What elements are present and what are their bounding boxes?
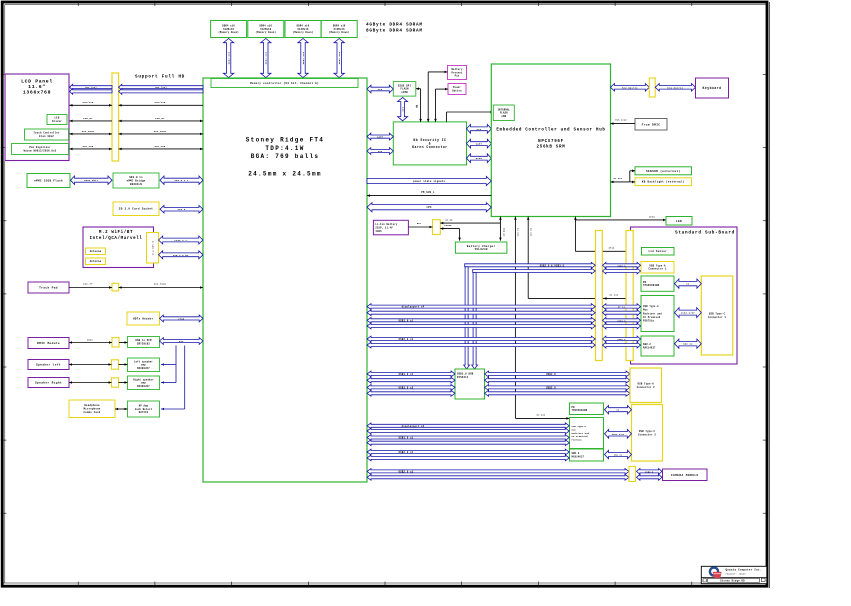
svg-text:Connector 1: Connector 1 [649,268,667,271]
sensor external box [635,167,692,175]
svg-text:MAX14637: MAX14637 [643,346,656,349]
USB3.0 bus to sub-board (lower) [367,323,595,329]
svg-text:BGA: 769 balls: BGA: 769 balls [251,153,320,160]
KB backlight box [635,178,692,186]
HDT header box [127,312,160,325]
LED box [666,217,692,226]
board-to-board connector bar 1 (yellow) [596,231,603,361]
speaker right wire [69,381,128,384]
svg-text:PWM_BL: PWM_BL [155,117,165,120]
USB3/DP arrow redriver2-to-typeC2 [605,429,632,438]
svg-text:From DMIC: From DMIC [642,123,661,126]
svg-text:PROJECT: JEDI8: PROJECT: JEDI8 [726,573,747,576]
svg-text:POWER: POWER [444,224,452,227]
svg-text:USB3.0: USB3.0 [546,373,556,376]
svg-text:PCIe x 1: PCIe x 1 [174,239,187,242]
I2C trackpad wire [69,283,203,289]
key matrix arrow connector-to-keyboard [655,84,695,92]
svg-text:Battery Charger: Battery Charger [467,244,496,248]
security-to-EC-flash wire [447,111,494,122]
svg-text:power state signals: power state signals [413,180,445,183]
antenna 2 box [86,258,106,265]
PM_SUS wire [367,191,491,197]
svg-text:eMMC 8bit: eMMC 8bit [84,179,99,182]
svg-text:CAMERA MODULE: CAMERA MODULE [671,474,699,477]
camera connector (yellow) [629,467,636,482]
displayport x4 bus to sub-board (lower) [367,310,595,316]
SD3.0 bridge-to-SoC arrow [160,176,203,184]
title block bottom strip [703,578,765,582]
USB3.0 bus to sub-board (board link lower) [603,323,641,329]
svg-text:I2C_TP: I2C_TP [83,283,93,286]
svg-text:USB2.0: USB2.0 [546,386,556,389]
svg-text:AC_IN: AC_IN [445,218,453,221]
svg-text:(Memory Down): (Memory Down) [218,31,239,34]
USB3 bus SoC-to-hub row A (lower) [367,377,455,383]
USB riser vertical arrow 2 [472,273,478,370]
svg-text:USB 2.0 BT: USB 2.0 BT [173,254,189,257]
title block company text [726,568,762,575]
USB3/DP arrow redriver1-to-typeC1 [675,308,702,318]
svg-text:SM BUS: SM BUS [502,227,505,236]
CC arrow PD2-to-typeC2 [605,406,632,414]
svg-text:Intel/QCA/Marvell: Intel/QCA/Marvell [90,236,143,241]
I2S speaker bus elbows [161,346,185,411]
DDR4 channel bus arrow 2 [261,39,271,78]
svg-text:Connector 1: Connector 1 [708,316,726,319]
LCD panel label [21,79,53,96]
svg-text:Memory controller (64 bit, Cha: Memory controller (64 bit, Channel A) [250,81,319,85]
svg-text:AUX/SYN: AUX/SYN [83,101,94,104]
EC I2C trunk to sub-board PD [527,217,641,300]
svg-text:Mux: Mux [643,309,648,312]
svg-text:Pin: Pin [455,75,460,78]
svg-text:eMMC Bridge: eMMC Bridge [127,179,146,182]
USB type-C redriver 1 box [641,296,674,332]
EC GPIO wire to sensor and backlight [611,170,636,184]
svg-text:USB3.0 x1: USB3.0 x1 [399,437,414,440]
USB2.0 BT arrow to WiFi [159,251,204,259]
USB type-A connector 2 box (yellow) [630,368,662,403]
svg-text:Combo Jack: Combo Jack [83,411,100,414]
svg-text:Antenna: Antenna [90,260,102,263]
svg-text:SPI: SPI [378,88,383,91]
svg-text:UART: UART [476,143,483,146]
I2C arrow SoC-to-security [367,148,393,155]
battery connector (yellow) [433,220,441,235]
svg-text:TPS65983BD: TPS65983BD [572,409,588,412]
M.2 connector label [152,240,155,255]
svg-text:eDP (X2): eDP (X2) [155,86,167,89]
svg-text:Microphone: Microphone [83,408,100,411]
LCD panel box [5,74,69,161]
svg-text:1366x768: 1366x768 [23,90,51,96]
right speaker amp box [128,376,160,390]
pen digitizer box [12,144,69,155]
svg-text:USB Type-C: USB Type-C [643,305,659,308]
svg-text:11.6": 11.6" [28,84,46,90]
svg-text:I2C PD: I2C PD [517,227,520,236]
svg-text:NPCX796F: NPCX796F [538,140,564,144]
svg-text:USB3.0/DP: USB3.0/DP [612,433,625,436]
svg-text:CC: CC [686,283,690,286]
svg-text:Karen Connector: Karen Connector [412,145,447,149]
svg-text:key matrix: key matrix [668,86,684,89]
svg-text:PWM_BL: PWM_BL [83,117,93,120]
USB2.0 bus to sub-board SBU (board link lower) [603,342,641,348]
USB2.0 arrow connector-to-camera (upper) [637,469,663,475]
USB2.0 bus to sub-board SBU (upper) [367,336,595,342]
GPIO arrow security-to-EC [467,154,492,163]
SBU mux 2 box [570,449,604,461]
svg-text:DDR4 x16: DDR4 x16 [265,51,268,64]
EC block NPCX796F [491,64,610,217]
svg-text:UART: UART [377,136,384,139]
USB2.0 arrow connector-to-camera (lower) [637,474,663,480]
standard sub-board outline [631,227,738,364]
UART arrow security-to-EC [467,139,492,148]
USB2.0 bus to sub-board SBU (lower) [367,342,595,348]
BIOS-to-security wire [416,87,422,122]
SPI arrow security-to-EC [467,124,492,133]
svg-text:LCD Panel: LCD Panel [21,79,53,85]
DDR4 memory down chip 1 [211,21,247,38]
svg-text:xMB: xMB [501,115,506,118]
svg-text:SD3.0: SD3.0 [178,208,186,211]
svg-text:x1MB: x1MB [401,91,408,94]
svg-text:GPIO: GPIO [476,157,483,160]
CC arrow PD1-to-typeC1 [675,279,702,288]
svg-text:Support Full HD: Support Full HD [135,75,185,80]
displayport x4 bus to sub-board (board link lower) [603,310,641,316]
DDR4 channel bus arrow 1 [223,39,233,78]
svg-text:USB2.0 x1: USB2.0 x1 [399,451,414,454]
title block frame [701,566,767,583]
eDP lane arrow left segment 2 [70,89,113,95]
USB2 bus hub-to-typeA2 row B (lower) [485,390,631,396]
SMBUS vertical wire EC-to-charger [499,217,502,241]
svg-text:Keyboard: Keyboard [703,86,722,90]
svg-text:24.5mm x 24.5mm: 24.5mm x 24.5mm [248,171,322,178]
headphone combo jack box [69,400,115,418]
EC I2C trunk label 1 [529,227,532,236]
memory controller bar inside SoC [211,79,358,88]
EC I2C trunk to mainboard PD [514,217,569,420]
USB3 bus SoC-to-hub row B (lower) [367,390,455,396]
SPI vertical arrow BIOS-to-security [398,97,408,120]
svg-text:SPI: SPI [402,106,405,111]
svg-text:DP x4: DP x4 [618,306,626,309]
svg-text:(Memory Down): (Memory Down) [293,31,314,34]
svg-text:4GByte DDR4 SDRAM: 4GByte DDR4 SDRAM [366,23,423,28]
SD3.0 socket arrow [160,205,203,213]
type-A1 board link arrow upper [603,262,641,268]
DMIC module box [28,338,69,349]
svg-text:EC I2C: EC I2C [537,414,546,417]
svg-text:Embedded Controller and Sensor: Embedded Controller and Sensor Hub [496,128,605,133]
power button wire [434,88,448,122]
USB3 bus SoC-to-hub row B (upper) [367,385,455,391]
USB2 bus hub-to-typeA2 row B (upper) [485,385,631,391]
USB3.0 bus to redriver2 (upper) [367,435,569,441]
speaker right box [28,378,69,388]
svg-text:EC I2C: EC I2C [610,294,619,297]
USB2.0 bus to SBU2 (lower) [367,455,569,461]
EC GPIO trunk to LED and lid sensor [574,215,666,252]
svg-text:GPIO: GPIO [649,215,655,218]
displayport x4 bus to redriver2 (upper) [367,423,569,429]
UART arrow SoC-to-security [367,133,393,140]
svg-text:BH201LN: BH201LN [130,183,142,186]
DDR4 capacity note [366,23,423,34]
svg-text:PM_SUS_L: PM_SUS_L [421,191,435,194]
PD controller 1 box [641,276,674,291]
speaker left wire [69,363,128,366]
svg-text:displayport x4: displayport x4 [402,425,425,428]
svg-text:I2S: I2S [179,340,184,343]
speaker right connector (yellow) [112,378,119,387]
M.2 key-E connector (yellow) [147,233,159,264]
DDR4 memory down chip 4 [321,21,357,38]
svg-text:SBU x2: SBU x2 [614,454,623,457]
SoC title text [246,137,324,178]
USB riser horizontal arrow 1 [465,262,596,268]
USB type-A connector 1 box [641,262,674,274]
svg-text:USB3.0 x1: USB3.0 x1 [399,373,414,376]
USB3.0 bus to redriver2 (lower) [367,440,569,446]
svg-text:USB2.0 x1: USB2.0 x1 [399,338,414,341]
svg-text:USB2.0 x1: USB2.0 x1 [399,470,414,473]
speaker left box [28,360,69,370]
displayport x4 bus to sub-board (upper) [367,304,595,310]
svg-text:Antenna: Antenna [90,250,102,253]
svg-text:Standard Sub-Board: Standard Sub-Board [675,231,735,236]
svg-text:eMMC 32GB Flash: eMMC 32GB Flash [34,178,63,182]
svg-text:DA7219: DA7219 [139,411,149,414]
keyboard connector (yellow) [649,78,655,97]
displayport x4 bus to sub-board (board link upper) [603,304,641,310]
svg-text:M.2 WiFi/BT: M.2 WiFi/BT [99,230,133,235]
svg-text:USB3.0: USB3.0 [617,264,626,267]
svg-text:Connector 2: Connector 2 [637,386,655,389]
battery present pin wire [427,71,448,122]
USB2.0 bus to SBU2 (upper) [367,449,569,455]
USB3 bus SoC-to-hub row A (upper) [367,371,455,377]
power state signals arrow [367,176,491,185]
eMMC flash box [27,174,70,188]
USB3.0 hub box [455,369,485,399]
svg-text:TDP:4.1W: TDP:4.1W [265,145,304,152]
board-to-board connector bar 2 (yellow) [626,231,633,361]
SBU arrow mux2-to-typeC2 [605,450,632,458]
USB riser horizontal arrow 2 [473,268,596,274]
svg-text:RTS5411: RTS5411 [457,376,469,379]
svg-text:8: 8 [416,106,418,110]
svg-text:I2C PD: I2C PD [529,227,532,236]
SBU arrow mux1-to-typeC1 [675,339,702,348]
track pad connector (yellow) [112,283,119,291]
eMMC 8bit arrow [71,176,113,184]
svg-text:USB3.0 x2: USB3.0 x2 [399,386,414,389]
svg-text:Stoney Ridge FT4: Stoney Ridge FT4 [246,137,324,144]
svg-text:DDR4 x16: DDR4 x16 [338,51,341,64]
svg-text:Speaker Left: Speaker Left [36,363,61,367]
svg-text:PS8751a: PS8751a [572,438,583,441]
USB type-C connector 2 box (yellow) [632,405,663,462]
M.2 WiFi/BT module box [83,227,154,268]
svg-text:LPC: LPC [426,206,432,209]
svg-text:Wacom W9013/2036.0x2: Wacom W9013/2036.0x2 [24,150,57,153]
SD3.0-to-eMMC bridge box [113,173,159,188]
svg-text:Headphone: Headphone [84,404,100,407]
I2C touch wire [70,130,204,135]
AUX/HPD wire [70,101,204,106]
LPC arrow [367,203,491,212]
svg-text:HDTx Header: HDTx Header [133,316,154,320]
svg-text:USB2.0: USB2.0 [645,470,654,473]
svg-text:I2C_PEN: I2C_PEN [83,145,94,148]
svg-text:ISL9238: ISL9238 [474,248,487,251]
eDP lane arrow right segment 1 [119,84,203,90]
svg-text:USB3.0: USB3.0 [617,319,626,322]
svg-text:M.2 KEY E: M.2 KEY E [152,240,155,255]
svg-text:TPS65983BD: TPS65983BD [643,284,660,287]
svg-text:LED: LED [676,220,682,223]
svg-text:(Memory Down): (Memory Down) [329,31,350,34]
svg-text:I2C: I2C [378,150,383,153]
svg-text:GPIO: GPIO [609,247,615,250]
svg-text:AUX/SYN: AUX/SYN [155,101,166,104]
USB type-C connector 1 box (yellow) [701,276,733,355]
svg-text:SD3.0 x 1: SD3.0 x 1 [174,179,189,182]
PCIe x1 arrow to WiFi [159,236,204,244]
I2S arrow to SoC [160,338,204,345]
SoC U1 Stoney Ridge FT4 main block [203,78,367,482]
svg-text:SD 3.0 Card Socket: SD 3.0 Card Socket [119,207,154,211]
PD controller 2 box [570,403,604,415]
DMIC wire [69,338,128,343]
speaker left connector (yellow) [112,360,119,369]
standard sub-board title [675,231,735,236]
svg-text:SRT29102: SRT29102 [137,342,150,345]
DDR4 memory down chip 2 [248,21,284,38]
track pad box [28,282,69,293]
svg-text:Driver: Driver [52,120,62,123]
svg-text:USB3.0/DP: USB3.0/DP [681,312,696,315]
svg-text:I2C_TOUS: I2C_TOUS [154,130,167,133]
svg-text:MAX14637: MAX14637 [572,455,585,458]
svg-text:Connector 2: Connector 2 [638,433,656,436]
SD card socket box [113,202,159,216]
eDP lane arrow right segment 2 [119,89,203,95]
I2C pen wire [70,145,204,150]
svg-text:Button: Button [452,89,462,92]
svg-text:JTAG: JTAG [178,317,185,320]
PDM wire [611,119,636,125]
svg-text:I2C_PADS: I2C_PADS [154,283,167,286]
SPI arrow SoC-to-BIOS [367,85,393,93]
svg-text:key matrix: key matrix [622,86,638,89]
battery present pin box [448,66,467,80]
keyboard box [696,78,729,98]
svg-text:43Wh: 43Wh [375,230,382,233]
PWM backlight wire [70,117,204,122]
USB riser vertical arrow 1 [464,267,470,369]
svg-text:CC Promised: CC Promised [643,316,661,319]
svg-text:Stoney Ridge BD: Stoney Ridge BD [720,579,745,582]
touch controller box [25,129,69,140]
key matrix arrow EC-to-connector [611,84,650,92]
EC I2C trunk label 2 [517,227,520,236]
svg-text:DDR4 x16: DDR4 x16 [228,51,231,64]
DDR4 channel bus arrow 3 [298,39,308,78]
Li-Ion battery box [373,220,408,235]
displayport x4 bus to redriver2 (lower) [367,428,569,434]
Quanta logo [710,568,722,579]
svg-text:Elan 30x2: Elan 30x2 [39,135,54,138]
left speaker amp box [128,358,160,372]
DDR4 memory down chip 3 [285,21,321,38]
USB3.0 bus to sub-board (board link upper) [603,317,641,323]
svg-text:SENSOR (external): SENSOR (external) [646,169,680,173]
HP amp jack detect box [128,401,160,417]
svg-text:Track Pad: Track Pad [39,286,58,290]
USB3.0 bus to sub-board (upper) [367,317,595,323]
antenna 1 box [86,248,106,255]
svg-text:PDM (x2): PDM (x2) [615,119,627,122]
from-DMIC box [635,119,667,131]
svg-text:DMIC: DMIC [87,338,93,341]
USB2.0 bus to camera (upper) [367,469,629,475]
svg-text:DMIC Module: DMIC Module [37,341,60,345]
JTAG arrow [160,315,204,322]
SBU mux 1 box [641,336,674,356]
EC title text [496,128,605,150]
svg-text:displayport x4: displayport x4 [402,306,425,309]
svg-text:DDR4 x16: DDR4 x16 [302,51,305,64]
EC internal flash box [493,105,514,121]
EC SMB wire to battery connector [440,218,500,224]
svg-text:MAX98357: MAX98357 [137,367,150,370]
svg-text:USB2.0 & USB3.0: USB2.0 & USB3.0 [540,264,565,267]
DMIC connector (yellow) [112,338,119,347]
LCD connector CN1 (yellow bar) [112,73,119,161]
Support Full HD note [135,75,185,80]
svg-text:KB Backlight (external): KB Backlight (external) [642,180,685,184]
svg-text:BAT: BAT [417,222,422,225]
svg-text:8GByte DDR4 SDRAM: 8GByte DDR4 SDRAM [366,29,423,34]
camera module box [663,469,708,481]
combo jack wire [115,408,128,411]
svg-text:I2C_TOUS: I2C_TOUS [82,130,95,133]
svg-text:Quanta Computer Inc.: Quanta Computer Inc. [726,568,762,571]
svg-text:SBU x2: SBU x2 [683,343,693,346]
USB2.0 bus to camera (lower) [367,474,629,480]
USB type-C redriver 2 box [570,418,604,449]
svg-text:USB3.0 x1: USB3.0 x1 [399,319,414,322]
security IC / Karen connector box [393,122,466,165]
SMBUS vertical label [502,227,505,236]
battery power wire to charger [440,224,461,240]
LED driver box [47,115,67,125]
power button box [448,84,466,95]
battery-to-connector wire [408,222,432,229]
BIOS SPI flash box [393,82,416,97]
lid sensor box [642,248,675,256]
svg-text:SD3.0 to: SD3.0 to [129,176,143,179]
svg-text:USB2.0: USB2.0 [617,338,626,341]
svg-text:SPI: SPI [477,128,482,131]
